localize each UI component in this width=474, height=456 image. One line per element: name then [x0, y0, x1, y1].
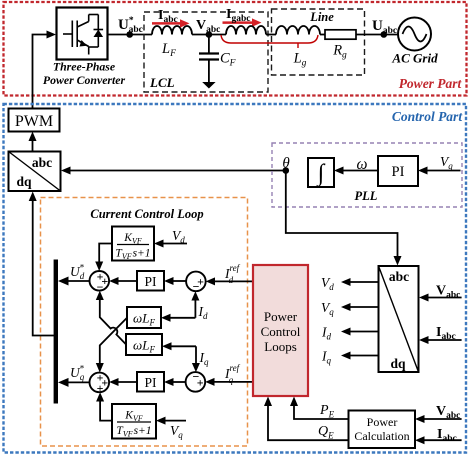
wire Idref from power control — [206, 277, 253, 285]
wire Iqref from power control — [205, 378, 253, 386]
current arrow I_gabc — [223, 18, 262, 26]
inductor coil line — [276, 26, 320, 35]
svg-text:TVF s+1: TVF s+1 — [116, 425, 151, 439]
wire PI to U*q — [109, 378, 137, 386]
svg-text:θ: θ — [282, 156, 290, 172]
wire Vq to lower filter — [156, 417, 186, 425]
wire Iabc into transform — [419, 336, 462, 344]
Power Control Loops block — [253, 265, 308, 396]
ground — [202, 82, 215, 89]
resistor R_g — [325, 30, 356, 39]
svg-text:U*q: U*q — [70, 364, 85, 383]
wire U*q to bus — [58, 378, 90, 387]
cross-coupling wire upper to U*q — [96, 318, 127, 373]
svg-text:Control Part: Control Part — [392, 109, 463, 124]
svg-text:∫: ∫ — [316, 161, 326, 188]
wire Id feedback — [161, 291, 199, 322]
svg-text:PI: PI — [144, 274, 157, 289]
inductor coil LCL grid-side — [226, 26, 266, 35]
brace L_g — [221, 35, 318, 48]
wire converter output — [108, 34, 152, 36]
capacitor C_F — [199, 35, 219, 83]
transform block abc/dq measurement — [379, 266, 419, 372]
wire L_F to second coil — [192, 34, 226, 36]
wire Iq feedback — [162, 342, 200, 372]
summing junction U*q — [90, 371, 110, 396]
block omega L_F upper — [127, 307, 161, 328]
wire P_E — [290, 397, 349, 420]
svg-text:Loops: Loops — [264, 339, 297, 354]
wire PWM to converter — [33, 31, 57, 109]
LCL filter boundary — [144, 12, 268, 92]
svg-text:Line: Line — [309, 10, 334, 24]
svg-text:+: + — [197, 376, 204, 390]
Power Part boundary — [4, 2, 467, 96]
wire Id output — [341, 328, 379, 336]
filter block K_VF lower — [112, 404, 156, 439]
node U_abc — [381, 31, 388, 38]
Control Part boundary — [4, 104, 467, 453]
wire Iq error to PI — [164, 378, 186, 386]
wire bus to modulation transform — [29, 192, 54, 336]
wire Vq to PLL PI — [418, 167, 461, 175]
filter block K_VF upper — [112, 227, 154, 262]
wire Vabc into transform — [419, 294, 462, 302]
svg-text:dq: dq — [16, 174, 32, 189]
PWM block — [9, 109, 60, 132]
PI block d-axis — [137, 271, 164, 291]
wire theta to measurement transform — [286, 171, 402, 266]
svg-text:Control: Control — [261, 324, 301, 339]
PLL boundary — [272, 143, 462, 207]
svg-text:ω: ω — [357, 156, 368, 173]
integrator block — [308, 158, 334, 188]
wire R_g to grid — [356, 34, 398, 36]
wire coil to R_g — [320, 34, 325, 36]
Current Control Loop boundary — [41, 198, 248, 447]
PI block PLL — [378, 156, 418, 186]
svg-text:Current Control Loop: Current Control Loop — [90, 207, 203, 221]
wire between coils — [266, 34, 276, 36]
svg-text:PWM: PWM — [15, 113, 53, 130]
current arrow I_abc — [152, 19, 190, 27]
transform block abc/dq modulation — [9, 152, 61, 192]
block omega L_F lower — [126, 334, 162, 355]
svg-text:Three-Phase: Three-Phase — [53, 60, 115, 74]
wire U*d to bus — [58, 277, 90, 286]
svg-text:AC Grid: AC Grid — [391, 51, 438, 66]
freewheeling diode D1 — [94, 15, 104, 48]
wire Vd to filter — [154, 240, 187, 248]
svg-text:Power: Power — [367, 415, 398, 429]
svg-text:U*d: U*d — [70, 263, 85, 282]
svg-text:dq: dq — [390, 356, 406, 371]
wire filter to summing U*d — [95, 244, 112, 272]
cross-coupling wire lower to U*d — [96, 291, 126, 345]
wire Vq output — [341, 303, 379, 311]
svg-text:PI: PI — [392, 164, 405, 180]
summing junction Iq error — [186, 369, 206, 391]
inductor L_F — [152, 26, 192, 35]
bus U*dq bar — [54, 260, 58, 404]
wire theta to modulation transform — [61, 167, 286, 175]
svg-text:Power Converter: Power Converter — [43, 73, 126, 87]
svg-text:Calculation: Calculation — [354, 429, 409, 443]
svg-text:Power Part: Power Part — [399, 76, 463, 91]
wire transform to PWM — [29, 132, 37, 152]
wire Id error to PI — [164, 277, 186, 285]
svg-text:Power: Power — [264, 309, 298, 324]
node V_abc — [206, 31, 213, 38]
wire lower filter to U*q — [96, 392, 112, 420]
summing junction U*d — [90, 269, 110, 294]
svg-text:abc: abc — [389, 269, 409, 284]
wire Q_E — [264, 397, 349, 441]
wire PI to integrator — [334, 167, 378, 175]
wire PI to U*d — [109, 277, 137, 285]
wire Iq output — [341, 352, 379, 360]
AC grid source G1 — [398, 18, 431, 51]
wire Iabc into power calculation — [415, 436, 462, 444]
Line boundary — [272, 9, 365, 75]
summing junction Id error — [186, 272, 206, 294]
node U*abc — [126, 31, 133, 38]
wire Vd output — [341, 278, 379, 286]
svg-text:abc: abc — [32, 155, 52, 170]
svg-text:PI: PI — [144, 375, 157, 390]
svg-text:PLL: PLL — [355, 189, 378, 203]
three-phase power converter U1 — [57, 8, 108, 60]
Power Calculation block — [349, 411, 416, 449]
wire Vabc into power calculation — [415, 415, 462, 423]
PI block q-axis — [137, 372, 164, 392]
svg-text:LCL: LCL — [149, 75, 175, 90]
node theta — [283, 167, 290, 174]
IGBT symbol — [63, 15, 98, 55]
svg-text:TVF s+1: TVF s+1 — [115, 248, 150, 262]
svg-text:−: − — [193, 280, 200, 294]
